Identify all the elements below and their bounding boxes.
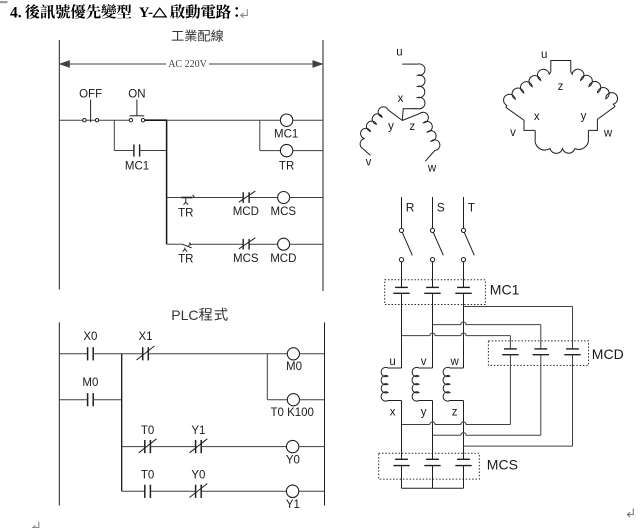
label y motor: [421, 406, 427, 418]
wire MC1 branch bottom left: [114, 150, 133, 152]
label x (Y diagram): [398, 93, 404, 105]
wire MC1 branch bottom right: [140, 150, 167, 152]
wire T0 branch down: [266, 354, 268, 400]
wire rung4 mid1: [192, 243, 243, 245]
return mark bottom-right: [627, 509, 633, 518]
svg-text:w: w: [449, 356, 459, 368]
wire rung1 left: [59, 119, 129, 121]
wire MCS1 down: [401, 466, 403, 489]
contact MC1 (NO): [134, 144, 140, 156]
wire T0 branch right: [267, 399, 287, 401]
wire rung4 right: [290, 243, 323, 245]
contact MCS (NC): [239, 238, 256, 250]
contact MCS-1: [393, 459, 409, 465]
wire PLC rung1 seg4: [300, 353, 325, 355]
label v (delta diagram): [510, 127, 516, 139]
svg-text:Y0: Y0: [191, 470, 205, 482]
label u (Y diagram): [396, 47, 402, 59]
wire z to MCD3 bottom: [464, 445, 573, 447]
contact MCD (NC): [239, 191, 256, 203]
title text 後訊號優先變型: [25, 4, 131, 19]
title return mark: [241, 9, 248, 18]
svg-text:u: u: [541, 49, 547, 61]
page border artifact: [0, 1, 8, 3]
wire rung4 mid2: [249, 243, 277, 245]
wire PLC rung2 seg2: [93, 399, 122, 401]
label w (Y diagram): [427, 163, 437, 175]
coil M0: [287, 348, 299, 360]
wire PLC rung4 seg2: [150, 490, 195, 492]
contact MCD-2: [533, 349, 549, 355]
svg-text:Y-: Y-: [139, 5, 153, 21]
PLC right rail: [324, 322, 326, 505]
svg-text:X0: X0: [83, 331, 97, 343]
wire rung1 to right rail: [293, 119, 323, 121]
contactor box MCS: [379, 453, 480, 479]
wire MCD1 down: [509, 355, 511, 425]
svg-text:y: y: [581, 110, 587, 122]
wire rung3 left: [167, 197, 182, 199]
wire rung3 right: [290, 197, 323, 199]
label X1: [138, 331, 152, 343]
label T0 rung4: [141, 470, 154, 482]
svg-text:T0: T0: [141, 425, 154, 437]
label MC1 contactor: [490, 281, 520, 297]
coil Y1: [286, 485, 298, 497]
label ON: [128, 89, 145, 101]
svg-text:T0: T0: [141, 470, 154, 482]
left rail: [58, 40, 60, 290]
AC 220V arrow line: [60, 61, 322, 67]
svg-text:v: v: [421, 356, 427, 368]
contact Y0 rung4 (NC): [190, 484, 208, 498]
coil Y0: [286, 440, 298, 452]
contact ON (NO pushbutton): [129, 100, 145, 122]
wire T to MCD3: [464, 307, 573, 349]
svg-text:R: R: [406, 201, 415, 215]
wire rung3 mid1: [192, 197, 243, 199]
label y (Y diagram): [388, 121, 394, 133]
wire S below MC1: [432, 293, 434, 368]
label X0: [83, 331, 97, 343]
svg-text:z: z: [409, 121, 415, 133]
Y-winding coil u-x: [402, 64, 425, 121]
title text 4.: [10, 4, 22, 21]
label MC1 coil: [274, 129, 298, 141]
contact X0 (NO): [88, 347, 94, 360]
motor winding v-y: [412, 367, 432, 401]
label MCS rung4: [233, 253, 259, 265]
PLC left rail: [58, 322, 60, 505]
contact MCD-3: [564, 349, 580, 355]
svg-text:MCS: MCS: [271, 206, 297, 218]
wire PLC rung3 seg4: [299, 446, 325, 448]
svg-text:u: u: [396, 47, 402, 59]
svg-text:PLC: PLC: [171, 307, 198, 323]
svg-text:z: z: [558, 81, 564, 93]
Y-winding lead u: [402, 63, 417, 65]
contact MC1-T: [455, 287, 471, 293]
label M0 coil: [286, 361, 302, 373]
label Y0 coil: [286, 455, 300, 467]
svg-text:MCD: MCD: [270, 253, 296, 265]
wire TR branch right: [260, 150, 281, 152]
label u motor: [389, 356, 395, 368]
label Y1 coil: [286, 499, 300, 511]
label TR rung3: [178, 207, 193, 219]
svg-text:S: S: [437, 201, 445, 215]
section label PLC 程式: [171, 307, 227, 323]
svg-text:MCS: MCS: [233, 253, 259, 265]
phase T line and switch: [461, 197, 474, 287]
wire PLC rung2 seg1: [59, 399, 87, 401]
label TR rung4: [178, 253, 193, 265]
svg-text:TR: TR: [178, 207, 193, 219]
svg-text:TR: TR: [279, 161, 294, 173]
motor winding u-x: [381, 367, 401, 401]
svg-text:x: x: [390, 406, 396, 418]
wire x below coil: [401, 401, 403, 459]
svg-text:Y1: Y1: [286, 499, 300, 511]
wire S to MCD2: [433, 322, 541, 349]
label MCD rung4: [270, 253, 296, 265]
delta coil right (y-z side): [571, 69, 618, 106]
label MCD contactor: [592, 346, 624, 362]
svg-text:w: w: [603, 128, 613, 140]
wire MC1 branch up: [166, 120, 168, 150]
label y (delta diagram): [581, 110, 587, 122]
wire PLC rung4 seg4: [299, 490, 325, 492]
label z motor: [452, 406, 458, 418]
label MC1 contact: [125, 160, 149, 172]
wire PLC rung3 seg2: [150, 446, 195, 448]
svg-text:x: x: [534, 111, 540, 123]
svg-text:M0: M0: [82, 377, 98, 389]
wire TR branch down: [259, 120, 261, 150]
wire branch vertical: [166, 120, 168, 244]
wire y below coil: [432, 401, 434, 459]
contact T0 rung3 (NC): [139, 439, 157, 453]
contact MC1-R: [393, 287, 409, 293]
svg-text:MCD: MCD: [592, 346, 624, 362]
wire PLC rung3 seg1: [122, 446, 145, 448]
wire R below MC1: [401, 293, 403, 368]
svg-text:x: x: [398, 93, 404, 105]
label MCS rung3: [271, 206, 297, 218]
coil MCS: [278, 192, 290, 204]
motor winding w-z: [443, 367, 463, 401]
wire MCD3 down: [572, 355, 574, 446]
label Y0 rung4: [191, 470, 205, 482]
delta notch u terminal: [551, 61, 571, 73]
delta corner w: [588, 106, 615, 130]
svg-text:T: T: [468, 201, 476, 215]
delta coil left (u-x side): [504, 69, 551, 107]
label w motor: [449, 356, 459, 368]
contact TR timer (rung4): [182, 243, 191, 252]
label S: [437, 201, 445, 215]
coil T0: [287, 394, 299, 406]
label MCD rung3: [233, 206, 259, 218]
label x (delta diagram): [534, 111, 540, 123]
svg-text:Y1: Y1: [191, 425, 205, 437]
wire PLC rung1 seg2: [93, 353, 142, 355]
label Y1 rung3: [191, 425, 205, 437]
phase S line and switch: [430, 197, 443, 287]
contact OFF (NC pushbutton): [83, 100, 99, 123]
contact MC1-S: [424, 287, 440, 293]
wire R to MCD1: [402, 333, 511, 349]
wire T0 coil to rail: [300, 399, 325, 401]
contactor box MC1: [385, 280, 486, 305]
wire rung1 after ON: [145, 119, 281, 121]
wire PLC rung3 seg3: [201, 446, 286, 448]
wire MCD2 down: [540, 355, 542, 436]
label MCS contactor: [487, 457, 518, 473]
svg-text:w: w: [427, 163, 437, 175]
label w (delta diagram): [603, 128, 613, 140]
delta corner v: [506, 107, 535, 130]
contact TR timer (rung3): [181, 195, 194, 205]
title triangle symbol: [153, 8, 166, 17]
svg-text:MCS: MCS: [487, 457, 518, 473]
Y-winding coil z-w: [402, 112, 440, 161]
label T: [468, 201, 476, 215]
svg-text:v: v: [366, 156, 372, 168]
label v (Y diagram): [366, 156, 372, 168]
coil MC1: [280, 114, 292, 126]
wire T below MC1: [463, 293, 465, 368]
label z (Y diagram): [409, 121, 415, 133]
svg-text:MC1: MC1: [125, 160, 149, 172]
wire z below coil: [463, 401, 465, 459]
contact MCD-1: [502, 349, 518, 355]
coil TR: [280, 144, 292, 156]
wire PLC rung1 seg1: [59, 353, 87, 355]
contact MCS-3: [455, 459, 471, 465]
svg-text:4.: 4.: [10, 4, 22, 21]
phase R line and switch: [399, 197, 412, 287]
svg-text:u: u: [389, 356, 395, 368]
wire TR coil to right rail: [293, 150, 323, 152]
label R: [406, 201, 415, 215]
label u (delta diagram): [541, 49, 547, 61]
svg-text:MC1: MC1: [490, 281, 520, 297]
svg-text:T0 K100: T0 K100: [270, 407, 313, 419]
svg-text:y: y: [388, 121, 394, 133]
label TR coil: [279, 161, 294, 173]
label x motor: [390, 406, 396, 418]
AC 220V label: [168, 59, 207, 70]
wire PLC rung4 seg1: [122, 490, 145, 492]
Y-winding coil y-v: [360, 107, 402, 156]
label v motor: [421, 356, 427, 368]
svg-text:y: y: [421, 406, 427, 418]
label T0 rung3: [141, 425, 154, 437]
svg-text:AC 220V: AC 220V: [168, 59, 207, 70]
svg-text:ON: ON: [128, 89, 145, 101]
contact Y1 rung3 (NC): [190, 439, 208, 453]
svg-text:TR: TR: [178, 253, 193, 265]
svg-text:v: v: [510, 127, 516, 139]
wire MC1 branch down: [113, 120, 115, 150]
contact T0 rung4 (NO): [145, 485, 151, 498]
wire PLC junction vertical: [121, 354, 123, 492]
wire PLC rung4 seg3: [201, 490, 286, 492]
contact X1 (NC): [137, 346, 155, 360]
svg-text:X1: X1: [138, 331, 152, 343]
wire rung3 mid2: [249, 197, 277, 199]
label T0 K100: [270, 407, 313, 419]
star point bus: [402, 487, 464, 489]
svg-text:MCD: MCD: [233, 206, 259, 218]
wire x to MCD1 bottom: [402, 422, 511, 425]
title text Y-: [139, 5, 153, 21]
contactor box MCD: [488, 341, 588, 366]
wire PLC rung1 seg3: [148, 353, 287, 355]
return mark bottom-left: [33, 522, 39, 528]
label OFF: [79, 89, 102, 101]
contact MCS-2: [424, 459, 440, 465]
label M0 contact: [82, 377, 98, 389]
delta coil bottom (x-y side): [535, 130, 588, 153]
svg-text:M0: M0: [286, 361, 302, 373]
wire MCS2 down: [432, 466, 434, 489]
title text 啟動電路: [170, 4, 231, 19]
svg-text:Y0: Y0: [286, 455, 300, 467]
wire y to MCD2 bottom: [433, 433, 541, 436]
title fullwidth colon: [235, 7, 238, 17]
contact M0 (NO): [88, 393, 94, 406]
right rail: [322, 40, 324, 291]
wire MCS3 down: [463, 466, 465, 489]
section label 工業配線: [172, 29, 224, 41]
wire rung4 left: [167, 243, 183, 245]
svg-text:z: z: [452, 406, 458, 418]
svg-text:MC1: MC1: [274, 129, 298, 141]
svg-text:OFF: OFF: [79, 89, 102, 101]
coil MCD: [278, 238, 290, 250]
label z (delta diagram): [558, 81, 564, 93]
